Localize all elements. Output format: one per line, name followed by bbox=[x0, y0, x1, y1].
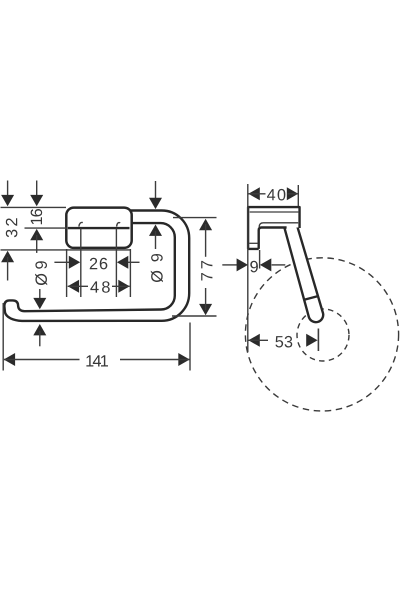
side view wall bracket outline bbox=[248, 207, 299, 249]
side view bar cross tick bbox=[305, 296, 319, 300]
bracket top chamfer line bbox=[250, 211, 299, 213]
label diameter 9 right bbox=[151, 254, 163, 282]
bracket plate bottom step line bbox=[249, 242, 258, 244]
dim 141 right arrow bbox=[178, 353, 189, 366]
front view loop bar bbox=[4, 211, 189, 321]
side wall line bbox=[247, 184, 249, 352]
dim 53 left arrow bbox=[248, 334, 259, 347]
dashed roll core circle small bbox=[297, 309, 349, 361]
dim 77 ext bottom bbox=[172, 315, 217, 317]
dim 77 bottom arrow bbox=[199, 304, 212, 315]
ext line top (plate top) bbox=[1, 206, 67, 208]
bracket lower chamfer line bbox=[259, 223, 298, 227]
dim 16 top arrow bbox=[36, 181, 38, 200]
label 16 bbox=[31, 209, 43, 224]
ext line plate mid left bbox=[25, 227, 68, 229]
dim 26 right bbox=[117, 256, 128, 269]
label 48 bbox=[90, 281, 109, 293]
dia9 left up arrow bbox=[33, 324, 46, 335]
label 32 bbox=[6, 218, 18, 237]
dim 9 ext right bbox=[259, 250, 261, 269]
side view wall bracket fill bbox=[248, 207, 299, 249]
plate mid line thick bbox=[68, 227, 130, 229]
dim 77 ext top bbox=[173, 217, 217, 219]
dim 40 left arrow bbox=[248, 187, 259, 200]
label 141 bbox=[86, 355, 108, 366]
dia9 right top arrow bbox=[155, 181, 157, 199]
dia9 left down arrow bbox=[39, 289, 41, 301]
dim 32 bottom arrow bbox=[1, 251, 14, 262]
ext line 26 left bbox=[80, 229, 82, 298]
dim 26 left bbox=[54, 261, 69, 263]
dim 32 top arrow bbox=[7, 181, 9, 200]
front wall plate bbox=[66, 208, 131, 248]
plate hole arc right bbox=[117, 223, 121, 227]
dim 48 arrows bbox=[68, 280, 79, 293]
label 77 bbox=[201, 261, 212, 281]
dim 40 right arrow bbox=[287, 187, 298, 200]
dia9 right up arrow bbox=[149, 225, 162, 236]
label 26 bbox=[90, 258, 108, 270]
dim 77 top arrow bbox=[199, 219, 212, 230]
dim 141 ext right bbox=[189, 323, 191, 371]
ext line 26 right bbox=[115, 229, 117, 298]
dim 9 right arrow bbox=[260, 258, 271, 271]
dashed roll circle large bbox=[245, 258, 398, 411]
dim 141 ext left bbox=[2, 303, 4, 371]
dim 53 right arrow bbox=[306, 334, 317, 347]
label 53 bbox=[275, 336, 292, 348]
ext line 32 bottom bbox=[1, 249, 131, 251]
label 40 bbox=[267, 189, 285, 201]
side view bar (capsule) bbox=[284, 222, 323, 322]
label diameter 9 left bbox=[35, 261, 47, 285]
dim 16 bottom arrow bbox=[30, 229, 43, 240]
dim 9 left arrow bbox=[222, 264, 237, 266]
ext line 48 left bbox=[66, 249, 68, 297]
plate hole arc left bbox=[79, 222, 83, 226]
ext line 48 right bbox=[129, 249, 131, 297]
dim 141 left arrow bbox=[4, 353, 15, 366]
dim 40 ext right bbox=[297, 185, 299, 206]
roll center tick bbox=[317, 329, 319, 352]
label 9 bbox=[250, 261, 258, 273]
